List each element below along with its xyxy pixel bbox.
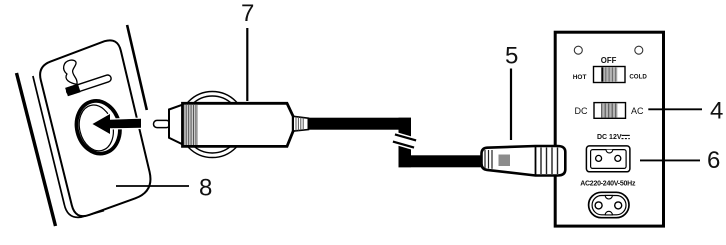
cable upper run [308, 118, 412, 130]
leader line 5 [510, 69, 512, 141]
cable vertical run [399, 118, 412, 168]
socket panel 8 face [40, 40, 150, 216]
dashboard edge left [17, 73, 56, 226]
screw hole right [635, 46, 643, 54]
insertion arrow [93, 114, 142, 134]
AC inlet socket [589, 192, 629, 217]
DC plug 5 body [482, 146, 566, 176]
leader line 6 [640, 159, 700, 161]
DC/AC switch [594, 103, 626, 119]
HOT/COLD switch [594, 67, 626, 83]
leader line 8 [116, 185, 189, 187]
cigarette icon smoke [64, 60, 77, 84]
svg-text:COLD: COLD [629, 74, 647, 81]
leader line 7 [246, 28, 248, 101]
plug 7 knurled ribs [185, 105, 197, 145]
svg-text:AC220-240V-50Hz: AC220-240V-50Hz [580, 180, 636, 187]
socket opening ellipse [71, 96, 125, 158]
DC plug 5 divider [535, 146, 537, 176]
DC plug 5 strain relief ribs [485, 150, 492, 169]
svg-text:DC: DC [575, 106, 588, 116]
plug 7 body [183, 103, 294, 146]
svg-text:OFF: OFF [601, 56, 617, 65]
plug 7 spring contact arcs [179, 92, 245, 158]
appliance panel [555, 32, 663, 226]
DC plug 5 barrel ribs [541, 148, 558, 175]
cable lower run [399, 155, 484, 167]
svg-text:5: 5 [505, 43, 518, 70]
DC plug 5 gray pad [499, 155, 511, 167]
svg-text:AC: AC [631, 106, 644, 116]
plug 7 nose [169, 103, 186, 146]
DC 12V socket [586, 146, 630, 172]
leader line 4 [648, 108, 702, 110]
svg-text:7: 7 [241, 0, 254, 27]
screw hole left [574, 46, 582, 54]
socket panel 8 outer depth outline [33, 76, 104, 217]
svg-text:DC 12V: DC 12V [597, 134, 622, 141]
svg-text:4: 4 [710, 98, 723, 125]
cigarette icon stick [65, 73, 112, 96]
svg-text:6: 6 [707, 147, 720, 174]
cable break [392, 132, 417, 150]
DC symbol [622, 134, 630, 136]
svg-text:8: 8 [199, 175, 212, 202]
plug 7 center pin [154, 120, 171, 127]
plug 7 cable connector [293, 116, 308, 131]
dashboard edge right [127, 25, 147, 110]
svg-text:HOT: HOT [573, 74, 587, 81]
